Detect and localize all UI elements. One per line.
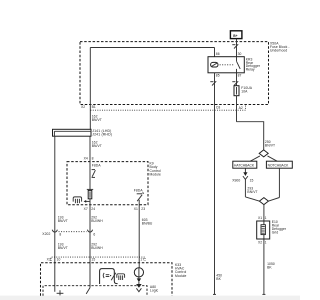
svg-text:87: 87 (238, 74, 242, 78)
svg-text:BU/WH: BU/WH (91, 246, 103, 250)
svg-text:X2: X2 (258, 241, 262, 245)
svg-text:8: 8 (59, 232, 61, 236)
svg-text:23: 23 (141, 207, 145, 211)
svg-text:BK: BK (216, 277, 221, 281)
svg-text:Underhood: Underhood (270, 48, 287, 52)
svg-text:86: 86 (216, 52, 220, 56)
svg-text:A2: A2 (239, 106, 243, 110)
svg-text:X1: X1 (134, 207, 138, 211)
svg-text:X900: X900 (232, 179, 240, 183)
svg-text:F8DA: F8DA (92, 164, 102, 168)
svg-text:B+: B+ (233, 34, 237, 38)
svg-text:BK: BK (267, 266, 272, 270)
svg-text:BN/VT: BN/VT (247, 190, 257, 194)
svg-text:15: 15 (91, 257, 95, 261)
svg-text:X4: X4 (84, 157, 88, 161)
svg-text:Module: Module (150, 173, 162, 177)
svg-text:10A: 10A (241, 89, 248, 93)
svg-text:HATCHBACK: HATCHBACK (234, 164, 255, 168)
svg-text:15: 15 (250, 179, 254, 183)
svg-text:BN/VT: BN/VT (58, 246, 68, 250)
svg-text:NOTCHBACK: NOTCHBACK (268, 164, 289, 168)
svg-text:X202: X202 (42, 232, 50, 236)
svg-text:BN/VT: BN/VT (92, 118, 102, 122)
svg-text:X3: X3 (47, 257, 51, 261)
svg-text:BN/BU: BN/BU (142, 221, 153, 225)
svg-text:Module: Module (175, 274, 187, 278)
svg-text:Logic: Logic (150, 288, 159, 292)
svg-text:24: 24 (91, 207, 95, 211)
svg-text:BN/VT: BN/VT (92, 144, 102, 148)
svg-text:85: 85 (216, 74, 220, 78)
svg-text:30: 30 (238, 52, 242, 56)
svg-text:F8DA: F8DA (134, 189, 144, 193)
svg-text:BN/VT: BN/VT (265, 144, 275, 148)
svg-text:10: 10 (57, 257, 61, 261)
svg-text:8: 8 (92, 157, 94, 161)
svg-text:X7: X7 (84, 207, 88, 211)
svg-text:1: 1 (265, 241, 267, 245)
svg-text:Relay: Relay (246, 68, 255, 72)
svg-text:BU/WH: BU/WH (91, 219, 103, 223)
svg-text:6: 6 (93, 232, 95, 236)
svg-text:X2: X2 (81, 105, 85, 109)
svg-text:1: 1 (265, 216, 267, 220)
svg-text:B1: B1 (92, 105, 96, 109)
svg-text:X1: X1 (258, 216, 262, 220)
svg-text:J241 (RHD): J241 (RHD) (92, 133, 112, 137)
svg-text:BN/VT: BN/VT (58, 219, 68, 223)
svg-text:Grid: Grid (272, 231, 279, 235)
svg-text:C8: C8 (216, 105, 220, 109)
svg-text:17: 17 (140, 258, 144, 262)
